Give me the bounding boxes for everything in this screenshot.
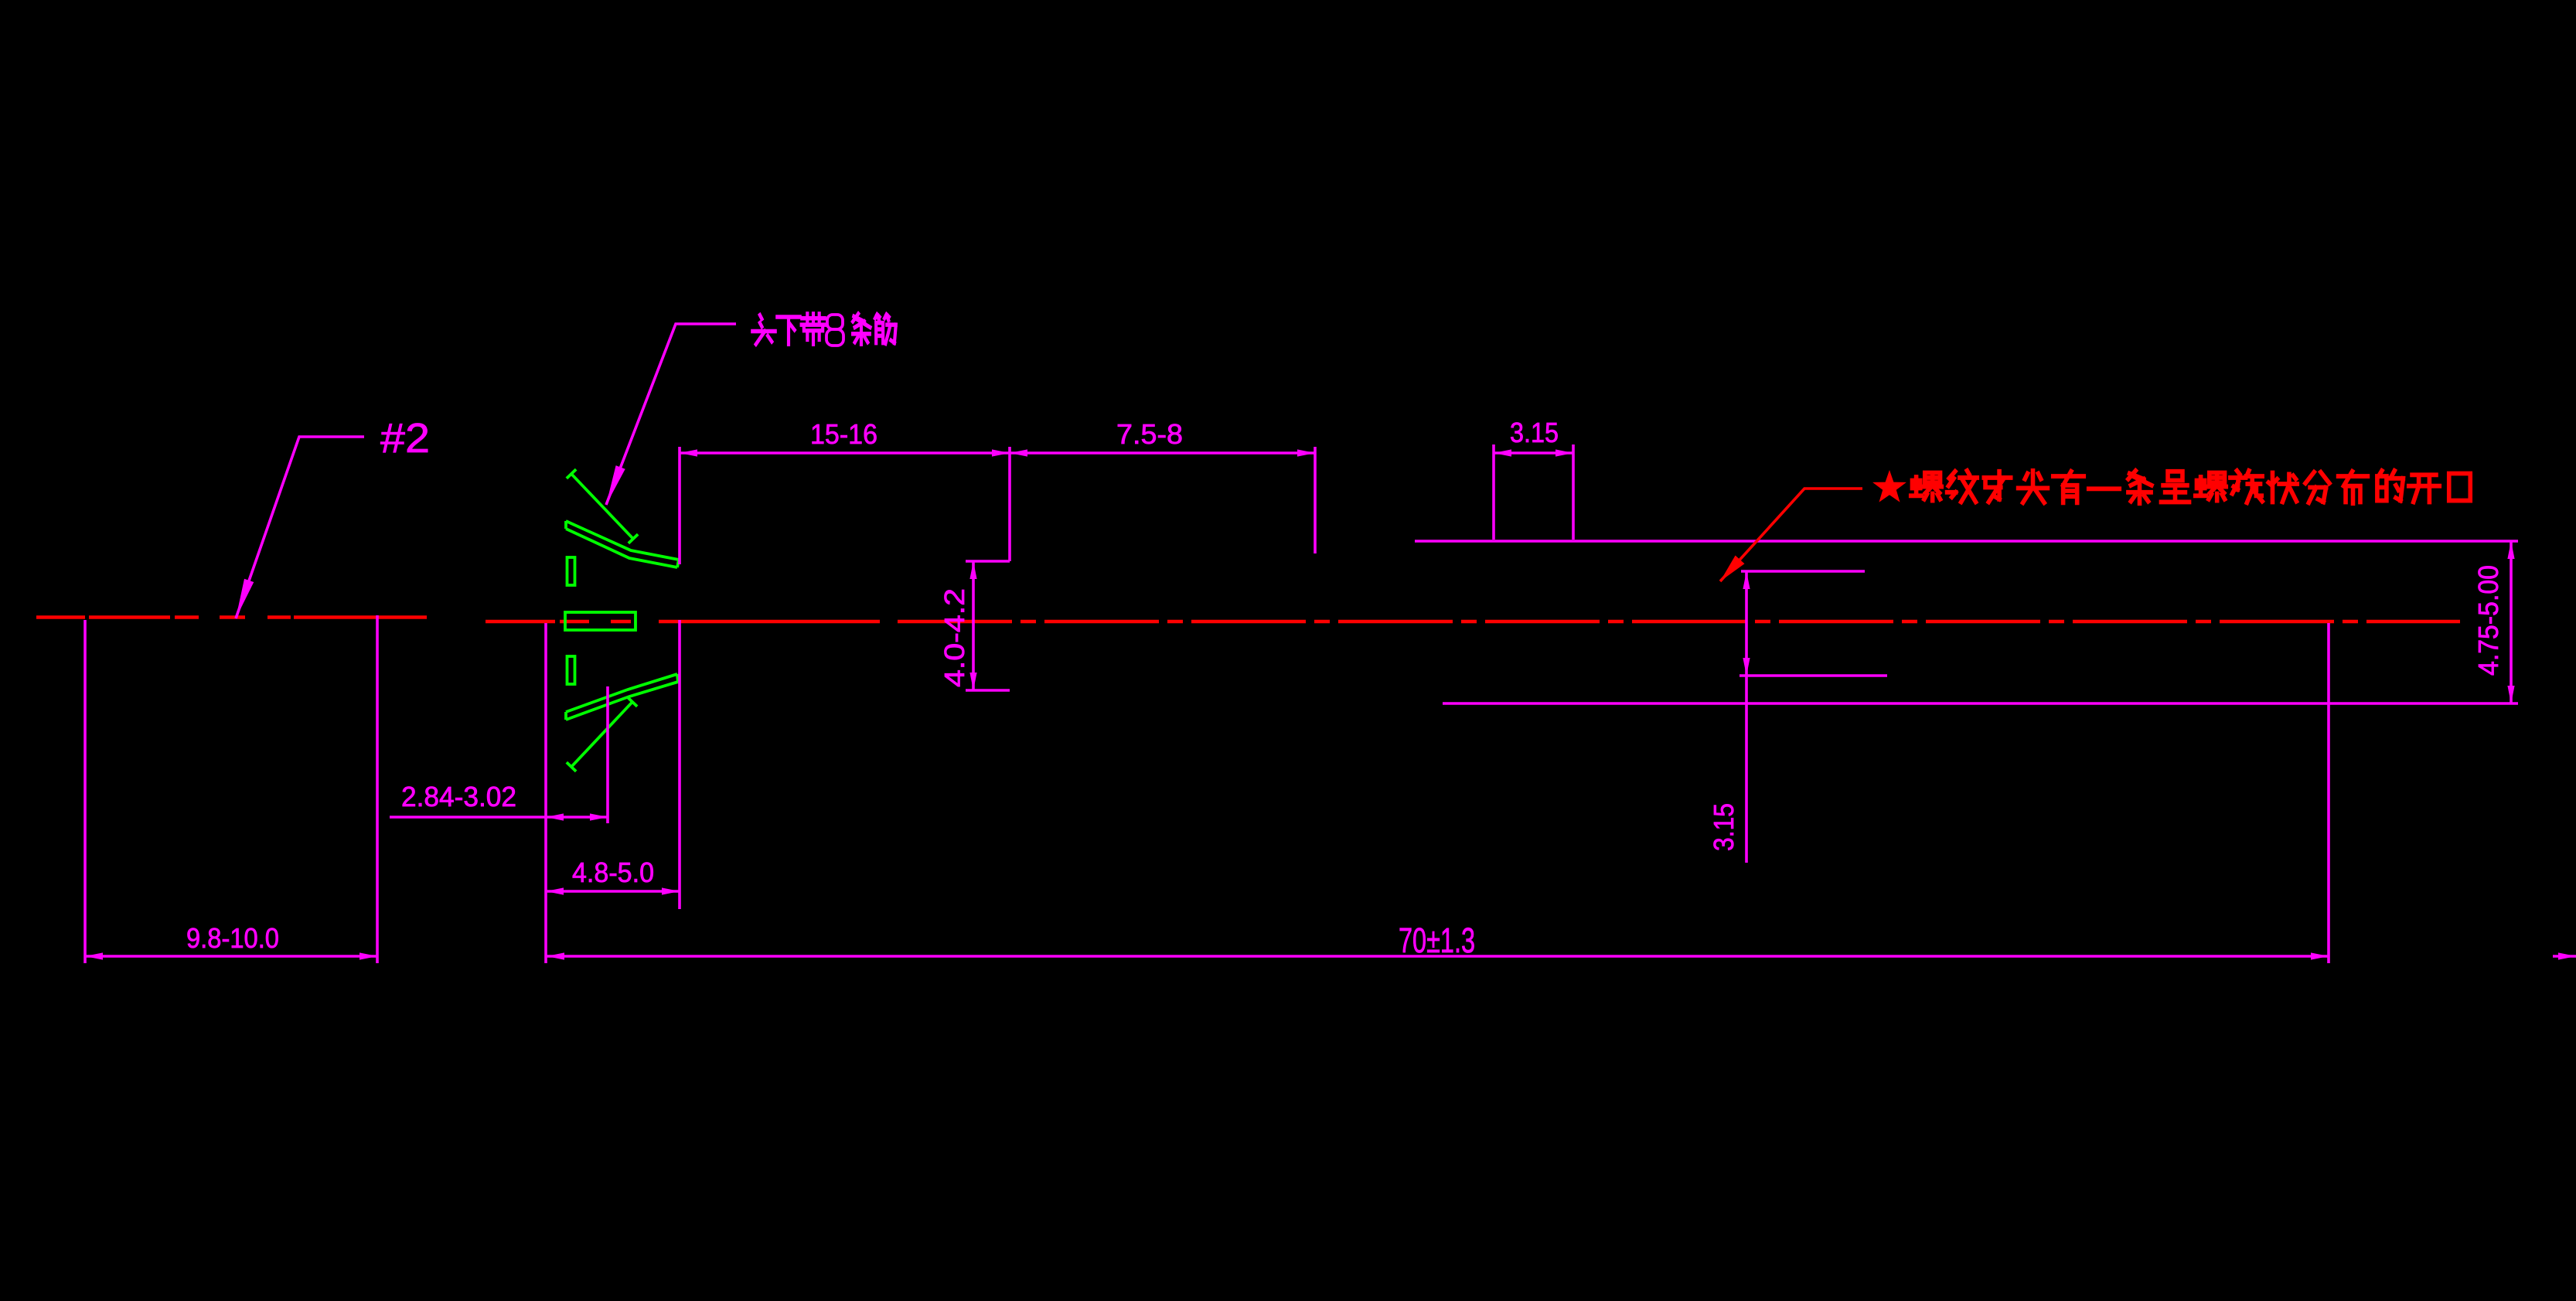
svg-text:3.15: 3.15 <box>1708 803 1739 851</box>
svg-text:4.0-4.2: 4.0-4.2 <box>939 588 970 687</box>
svg-text:7.5-8: 7.5-8 <box>1116 418 1183 450</box>
svg-text:9.8-10.0: 9.8-10.0 <box>186 922 279 954</box>
svg-text:2.84-3.02: 2.84-3.02 <box>401 781 516 812</box>
svg-text:3.15: 3.15 <box>1510 417 1559 448</box>
svg-text:#2: #2 <box>380 415 430 461</box>
svg-text:15-16: 15-16 <box>810 418 877 450</box>
svg-text:4.8-5.0: 4.8-5.0 <box>572 857 654 888</box>
svg-text:4.75-5.00: 4.75-5.00 <box>2472 565 2504 676</box>
svg-text:70±1.3: 70±1.3 <box>1399 921 1475 960</box>
